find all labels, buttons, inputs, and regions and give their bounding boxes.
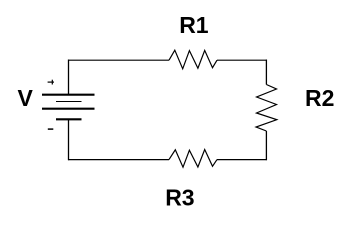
battery V plate 4 (short, bottom) xyxy=(56,118,82,120)
battery V plate 1 (long, top) xyxy=(42,94,95,96)
wire bottom horizontal right segment xyxy=(217,159,267,161)
svg-text:R3: R3 xyxy=(165,185,194,211)
battery V plate 2 (short thin) xyxy=(56,101,82,103)
wire bottom horizontal left segment xyxy=(68,159,169,161)
svg-text:V: V xyxy=(18,85,34,111)
wire top horizontal left segment xyxy=(68,59,169,61)
battery V plate 3 (long) xyxy=(42,108,95,110)
wire top-left vertical xyxy=(68,60,70,96)
wire bottom-left vertical xyxy=(68,120,70,161)
svg-text:R2: R2 xyxy=(305,85,334,111)
wire top horizontal right segment xyxy=(217,59,267,61)
label R2 xyxy=(305,85,334,111)
wire right vertical lower xyxy=(265,131,267,160)
resistor R3 xyxy=(169,150,217,168)
svg-text:R1: R1 xyxy=(179,12,209,38)
resistor R2 xyxy=(256,85,277,132)
label R3 xyxy=(165,185,194,211)
resistor R1 xyxy=(169,50,217,69)
label R1 xyxy=(179,12,209,38)
battery plus terminal mark xyxy=(48,80,54,85)
label V xyxy=(18,85,34,111)
battery minus terminal mark xyxy=(48,128,54,130)
wire right vertical upper xyxy=(265,60,267,85)
